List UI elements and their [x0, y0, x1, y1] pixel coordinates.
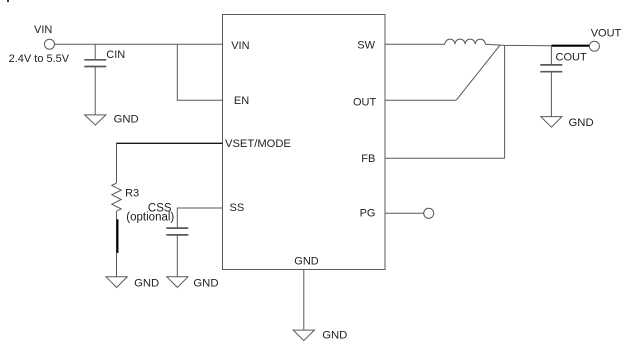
svg-text:FB: FB: [361, 153, 375, 165]
wire EN branch: [177, 44, 222, 100]
wire inductor to output node: [485, 44, 551, 46]
wire IC GND to ground: [303, 270, 305, 331]
wire FB horizontal: [385, 157, 505, 159]
svg-text:PG: PG: [360, 208, 376, 220]
resistor R3: [112, 183, 121, 211]
ground (R3): [106, 277, 127, 288]
svg-text:GND: GND: [294, 255, 319, 267]
svg-text:GND: GND: [193, 277, 218, 289]
svg-text:VIN: VIN: [231, 40, 249, 52]
svg-text:VOUT: VOUT: [591, 28, 622, 40]
IC U1 body: [223, 15, 386, 270]
svg-text:SS: SS: [230, 202, 245, 214]
wire VSET/MODE (bold): [116, 142, 222, 144]
svg-text:OUT: OUT: [353, 96, 377, 108]
wire PG: [385, 212, 424, 214]
svg-text:VSET/MODE: VSET/MODE: [225, 138, 291, 150]
capacitor CIN: [84, 44, 106, 115]
wire diagonal junction to OUT: [456, 45, 500, 100]
node VOUT terminal: [589, 41, 599, 51]
wire SS: [177, 208, 222, 227]
wire SW to inductor: [385, 43, 445, 45]
svg-text:GND: GND: [134, 277, 159, 289]
svg-text:R3: R3: [125, 187, 139, 199]
svg-text:GND: GND: [569, 117, 594, 129]
svg-text:VIN: VIN: [34, 24, 52, 36]
wire VOUT (bold): [552, 45, 590, 47]
wire VIN to IC: [55, 43, 223, 45]
wire OUT: [385, 99, 456, 101]
ground (COUT): [541, 117, 562, 128]
capacitor COUT: [540, 46, 562, 117]
svg-text:GND: GND: [322, 329, 347, 341]
svg-text:EN: EN: [234, 95, 249, 107]
ground (CIN): [85, 115, 106, 125]
wire FB vertical: [504, 45, 506, 158]
svg-text:GND: GND: [114, 114, 139, 126]
svg-text:(optional): (optional): [126, 212, 174, 224]
wire VSET vertical: [116, 143, 118, 183]
svg-text:CIN: CIN: [106, 49, 125, 61]
node PG terminal: [424, 208, 434, 218]
svg-text:SW: SW: [357, 40, 375, 52]
ground (IC GND): [293, 330, 314, 341]
capacitor CSS: [166, 228, 188, 277]
ground (CSS): [167, 277, 188, 288]
top-left artifact mark: [7, 0, 9, 2]
node VIN terminal: [45, 39, 55, 49]
svg-text:COUT: COUT: [556, 52, 587, 64]
inductor L1: [445, 39, 485, 44]
svg-text:2.4V to 5.5V: 2.4V to 5.5V: [9, 53, 70, 65]
wire R3 to ground (with bold segment): [116, 211, 119, 277]
